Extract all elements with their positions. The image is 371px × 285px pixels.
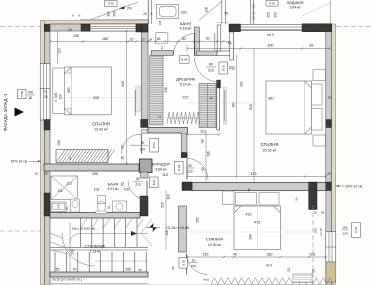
svg-text:180: 180 <box>267 253 273 257</box>
facade direction triangle <box>15 108 25 117</box>
svg-text:25, 10 - 110: 25, 10 - 110 <box>252 4 256 20</box>
svg-text:35: 35 <box>247 188 251 192</box>
wall block: V3 bottom tip <box>181 153 187 158</box>
svg-text:108: 108 <box>205 7 209 13</box>
svg-text:102: 102 <box>57 189 63 193</box>
stair bottom outline lines <box>50 283 148 285</box>
wall: hall south wall <box>197 51 218 56</box>
terrace slope marker <box>91 2 138 20</box>
svg-text:113: 113 <box>66 182 71 186</box>
label П07 box <box>266 1 278 7</box>
dim 20 6 ticks <box>143 12 152 16</box>
svg-text:200: 200 <box>268 44 274 48</box>
svg-text:205: 205 <box>125 267 131 271</box>
wall: stair south wall <box>50 272 148 277</box>
radiator bedroom1 <box>56 150 115 163</box>
bidet bathroom2 left <box>71 199 80 212</box>
closet left wardrobe hatch <box>150 56 168 126</box>
label пп 0 bedroom3 <box>266 264 272 268</box>
radiator panel bedroom1 east <box>135 86 140 116</box>
svg-text:2%: 2% <box>127 7 132 11</box>
svg-text:30: 30 <box>138 268 142 272</box>
svg-text:210: 210 <box>135 182 141 186</box>
svg-text:СПАЛНЯ: СПАЛНЯ <box>261 142 279 147</box>
svg-text:80: 80 <box>136 177 140 181</box>
wall block: stair corner <box>140 196 148 216</box>
svg-text:168: 168 <box>158 20 162 25</box>
label bedroom3 СПАЛНЯ <box>206 237 223 247</box>
window П08 in left wall <box>40 64 50 121</box>
stair lower flight treads <box>55 252 146 272</box>
svg-text:12: 12 <box>158 115 162 119</box>
svg-text:61: 61 <box>206 37 210 41</box>
bedroom1 bed <box>64 67 111 115</box>
dim 12 radiator <box>68 157 72 161</box>
svg-text:165: 165 <box>314 228 318 233</box>
label пп10 <box>52 278 82 282</box>
svg-text:250: 250 <box>267 12 271 18</box>
svg-text:250: 250 <box>113 11 117 17</box>
svg-text:4.01 м²: 4.01 м² <box>107 187 119 191</box>
svg-text:50: 50 <box>225 12 229 16</box>
svg-text:62: 62 <box>121 182 125 186</box>
dim 250 250 rot <box>267 12 278 18</box>
label bedroom1 СПАЛНЯ <box>92 122 110 132</box>
svg-text:25: 25 <box>328 95 332 99</box>
wall: top insulation strip <box>44 21 148 25</box>
dim 12 closet right <box>209 96 213 100</box>
svg-text:210: 210 <box>191 264 196 268</box>
label П08 box <box>18 90 35 101</box>
label П03 box <box>105 1 118 7</box>
svg-text:55: 55 <box>56 267 60 271</box>
wall block: V1 bottom <box>141 120 148 128</box>
svg-text:БАНЯ: БАНЯ <box>108 183 119 187</box>
svg-text:П 04: П 04 <box>354 227 358 233</box>
dim rot 110 320 <box>167 194 171 199</box>
door label 80/210 hall <box>206 63 216 73</box>
extension lines vertical <box>50 0 326 285</box>
svg-text:80: 80 <box>209 63 213 67</box>
svg-text:118: 118 <box>165 230 169 235</box>
svg-text:90: 90 <box>188 164 192 168</box>
closet hanger rail zigzag <box>167 112 200 124</box>
dim marker bath left <box>158 20 162 25</box>
svg-text:83: 83 <box>310 44 314 48</box>
svg-text:186: 186 <box>207 151 211 157</box>
svg-text:П 03: П 03 <box>108 2 115 6</box>
wall: central vertical V1 (bedroom/closet divider) <box>141 32 148 120</box>
bedroom2 bed <box>266 81 312 134</box>
label СТЪЛБИЩЕ <box>84 245 106 254</box>
hall east line <box>233 32 235 60</box>
dim 68 <box>157 37 161 41</box>
wall: bathroom2 south wall H6 <box>50 213 140 219</box>
svg-text:82: 82 <box>232 66 236 70</box>
loggia inner wall line <box>251 0 254 24</box>
svg-text:25: 25 <box>44 172 48 176</box>
label EPS left <box>11 160 41 164</box>
svg-text:100: 100 <box>58 48 62 54</box>
svg-text:92: 92 <box>201 167 205 171</box>
label bathroom БАНЯ <box>180 21 192 31</box>
wall: bathroom south wall segment <box>151 51 173 56</box>
label bedroom2 СПАЛНЯ <box>261 142 279 152</box>
dim rot 71 78 82 <box>171 266 175 270</box>
svg-text:473: 473 <box>251 172 257 176</box>
radiator panel bedroom2 west <box>223 87 226 124</box>
svg-text:П 07: П 07 <box>269 2 276 6</box>
wall V3b upper segment <box>181 130 187 133</box>
wall: main middle wall H4 <box>44 164 139 171</box>
wall block: left top corner <box>44 24 50 32</box>
svg-text:473: 473 <box>254 221 260 225</box>
dim 227 closet <box>183 96 189 100</box>
label БАНЯ2 <box>107 183 119 192</box>
dim 58 rot <box>312 269 316 273</box>
svg-text:25: 25 <box>44 95 48 99</box>
svg-text:330: 330 <box>240 81 244 87</box>
svg-text:227: 227 <box>183 96 189 100</box>
dim 165 rot window <box>314 228 324 236</box>
hall upper lines <box>217 0 229 25</box>
level mark +3.15 <box>146 223 189 232</box>
svg-text:228: 228 <box>71 249 75 255</box>
wall: corridor east wall V3 <box>181 133 187 158</box>
wall: corridor/bedroom3 wall H5 <box>192 183 326 191</box>
svg-text:+3.15=+10.85: +3.15=+10.85 <box>166 226 190 230</box>
svg-text:130: 130 <box>73 34 79 38</box>
svg-text:20: 20 <box>68 27 72 31</box>
svg-text:15: 15 <box>130 38 134 42</box>
wall: left exterior insulation (EPS) <box>40 21 44 285</box>
dim 201 bathroom <box>181 11 187 15</box>
wall block: H4/corridor junction <box>140 159 153 173</box>
door label 90/210 corridor <box>175 162 195 175</box>
frame bottom line <box>44 284 336 285</box>
svg-text:18: 18 <box>121 156 125 160</box>
dim line bedroom3 bottom <box>186 256 327 258</box>
closet door arc <box>195 58 220 83</box>
svg-text:35: 35 <box>321 211 325 215</box>
wall: right exterior insulation <box>331 24 335 285</box>
sink counter bathroom2 <box>51 202 69 212</box>
label КОРИДОР <box>152 163 170 172</box>
svg-text:В 04: В 04 <box>152 179 156 185</box>
svg-text:103: 103 <box>94 188 100 192</box>
door label 90/210 В02 <box>130 139 158 153</box>
label пп 0 small <box>203 278 209 282</box>
bedroom3 nightstand <box>223 191 235 205</box>
facade label ФАСАДА ЗАПАД -1 <box>3 93 8 131</box>
dim chain bedroom2 verticals <box>232 49 255 183</box>
svg-text:ФАСАДА ЗАПАД -1: ФАСАДА ЗАПАД -1 <box>3 93 8 131</box>
svg-text:25: 25 <box>327 172 331 176</box>
svg-text:5.22 м²: 5.22 м² <box>180 83 192 87</box>
label EPS right <box>336 184 363 188</box>
svg-text:КОРИДОР: КОРИДОР <box>152 163 170 167</box>
loggia east line <box>329 0 331 24</box>
svg-text:90: 90 <box>192 259 196 263</box>
svg-text:40: 40 <box>233 253 237 257</box>
label closet ДРЕШНИК <box>176 78 196 87</box>
svg-text:200: 200 <box>28 91 34 95</box>
wall: hall west wall <box>215 25 221 51</box>
dim 15 <box>130 38 134 42</box>
bathtub in bathroom <box>157 5 179 19</box>
wall: bathroom east wall V2 <box>194 27 199 56</box>
svg-text:250: 250 <box>274 12 278 18</box>
bedroom3 pillow left <box>236 193 257 206</box>
svg-text:В 02: В 02 <box>152 142 156 148</box>
dim 180 <box>102 37 108 41</box>
dashed line top right <box>336 26 371 28</box>
dim 103 bath2 <box>94 188 130 192</box>
dim 112 below closet <box>186 130 220 136</box>
svg-text:60: 60 <box>29 96 33 100</box>
svg-text:63: 63 <box>107 206 111 210</box>
svg-text:88: 88 <box>201 139 205 143</box>
dim 200 loggia <box>268 44 274 48</box>
dim 35 rot in H5 <box>247 188 251 192</box>
wardrobe zigzag bottom <box>211 278 334 285</box>
wall block: right mid2 <box>325 182 331 191</box>
svg-text:12: 12 <box>68 157 72 161</box>
dim 115 corridor <box>162 173 168 177</box>
dim 450 rot <box>67 87 71 93</box>
stair divider <box>50 248 148 251</box>
bedroom2 pillow bottom <box>312 109 323 131</box>
svg-text:150: 150 <box>203 253 209 257</box>
closet right wardrobe hatch <box>199 84 216 128</box>
svg-text:10,: 10, <box>34 172 38 176</box>
dashed line left lower <box>0 230 41 232</box>
dim 62 rot bath2 door <box>121 182 125 186</box>
wall: top exterior wall body <box>50 24 136 31</box>
wall block: top mid <box>81 24 90 31</box>
door В04 bathroom2 arc <box>128 181 147 200</box>
svg-text:5.66 м²: 5.66 м² <box>155 167 167 171</box>
wall block: H5 left <box>182 182 192 191</box>
wall block: V1 top <box>141 24 148 32</box>
svg-text:200: 200 <box>59 94 63 100</box>
bedroom2 pillow top <box>312 84 323 105</box>
svg-text:13.42 м²: 13.42 м² <box>94 128 108 132</box>
door label В03 box <box>219 62 228 74</box>
svg-text:180: 180 <box>102 37 108 41</box>
wall: right lower insulated block <box>326 262 336 282</box>
svg-text:90: 90 <box>141 141 145 145</box>
svg-text:23: 23 <box>287 268 291 272</box>
bedroom2 nightstand top <box>313 70 326 81</box>
stair winder arc <box>51 233 96 266</box>
svg-text:24: 24 <box>160 46 164 50</box>
svg-text:150: 150 <box>57 140 61 146</box>
svg-text:70: 70 <box>73 267 77 271</box>
dashed axis bedroom3 <box>312 205 314 285</box>
svg-text:115: 115 <box>162 173 168 177</box>
svg-text:103: 103 <box>309 253 315 257</box>
wall: bedroom3 west wall V4 <box>178 206 186 252</box>
svg-text:210: 210 <box>140 147 146 151</box>
dim row under stairs <box>56 267 142 272</box>
stair label 19ct <box>72 226 96 230</box>
svg-text:12: 12 <box>209 96 213 100</box>
dim 228 rot stairs <box>71 249 75 255</box>
dim 25 right wall <box>328 95 332 99</box>
dim rot 205 <box>196 217 200 223</box>
svg-text:305: 305 <box>93 96 99 100</box>
svg-text:165: 165 <box>342 226 347 230</box>
svg-text:пл 0: пл 0 <box>267 33 274 37</box>
svg-text:238: 238 <box>164 87 168 93</box>
svg-text:54: 54 <box>295 197 299 201</box>
dim 130 <box>73 34 79 38</box>
dim 12 closet left <box>158 115 162 119</box>
dim 20 in wall <box>68 27 72 31</box>
bathroom sink <box>155 32 168 49</box>
dim 25 10-110 rot <box>252 4 256 20</box>
bedroom2 nightstand bottom <box>313 135 326 146</box>
dim 61 <box>206 37 210 41</box>
dim 15 25 left <box>34 172 48 176</box>
svg-text:пл 10: пл 10 <box>319 228 323 236</box>
shower cabin bathroom2 <box>51 176 78 200</box>
dim 25 24 <box>141 38 152 42</box>
dim 190 250 rot <box>107 11 117 17</box>
label loggia ЛОДЖИЯ <box>287 1 304 10</box>
bedroom3 bed <box>234 206 281 250</box>
svg-text:4.18 м²: 4.18 м² <box>180 27 192 31</box>
svg-text:112: 112 <box>200 130 206 134</box>
svg-text:205: 205 <box>196 217 200 223</box>
dim 25 marker mid <box>44 95 48 99</box>
door В02 bedroom1 arc <box>122 130 148 155</box>
svg-text:308: 308 <box>249 234 253 240</box>
wall: hall/loggia wall <box>230 32 234 60</box>
loggia slope line <box>302 3 330 16</box>
wall: hall thin south <box>217 51 233 56</box>
svg-text:516: 516 <box>249 104 253 110</box>
dim 100 rot <box>58 31 62 64</box>
appliance box bottom <box>293 274 312 283</box>
stair walk line <box>70 222 148 272</box>
svg-text:65: 65 <box>157 37 161 41</box>
svg-text:82: 82 <box>171 266 175 270</box>
window П04 in right wall <box>326 232 336 263</box>
center line bedroom2 <box>188 102 256 104</box>
bedroom3 pillow right <box>259 193 279 206</box>
svg-text:EPS 10 см: EPS 10 см <box>11 160 28 164</box>
bedroom1 wardrobe <box>53 68 65 114</box>
dim 473 bedroom2 <box>186 172 331 178</box>
svg-text:14.30 м²: 14.30 м² <box>208 243 222 247</box>
svg-text:БАНЯ: БАНЯ <box>180 21 191 26</box>
stair upper flight treads <box>81 219 138 248</box>
wall: bathroom west thin wall <box>149 0 152 24</box>
svg-text:25: 25 <box>313 211 317 215</box>
terrace edge line <box>80 19 148 21</box>
dim chain corridor verticals <box>201 131 211 182</box>
dim line top chain <box>49 40 230 42</box>
svg-text:ДРЕШНИК: ДРЕШНИК <box>176 78 196 82</box>
svg-text:н. 190: н. 190 <box>54 92 58 101</box>
svg-text:340: 340 <box>121 81 125 87</box>
dim 20 6 left <box>72 14 80 18</box>
wall block: H5 pillar <box>309 182 317 210</box>
svg-text:361: 361 <box>268 97 274 101</box>
door label 80/210 bath2 <box>134 177 159 188</box>
door В02 corridor arc <box>187 159 208 180</box>
dim line loggia <box>186 47 331 49</box>
svg-text:СПАЛНЯ: СПАЛНЯ <box>206 237 223 242</box>
svg-text:102: 102 <box>124 188 130 192</box>
svg-text:пп 0: пп 0 <box>203 278 209 282</box>
dim 23 rot <box>287 268 291 272</box>
svg-text:210: 210 <box>208 69 214 73</box>
svg-text:110: 110 <box>167 194 171 199</box>
svg-text:EPS 10 см: EPS 10 см <box>346 184 363 188</box>
svg-text:413: 413 <box>246 213 252 217</box>
svg-text:СПАЛНЯ: СПАЛНЯ <box>92 122 110 127</box>
shower diagonal in bathroom <box>199 2 228 21</box>
svg-text:ЛОДЖИЯ: ЛОДЖИЯ <box>287 1 304 5</box>
wall block: loggia sill left <box>229 24 241 32</box>
faint lines bedroom3 <box>190 206 312 250</box>
door В04 bathroom arc <box>173 34 194 56</box>
svg-text:190: 190 <box>107 11 111 17</box>
svg-text:210: 210 <box>187 169 193 173</box>
svg-text:В 03: В 03 <box>221 65 225 72</box>
svg-text:520: 520 <box>161 202 165 208</box>
svg-text:450: 450 <box>67 87 71 93</box>
svg-text:20.32 м²: 20.32 м² <box>263 148 277 152</box>
svg-text:305: 305 <box>92 172 98 176</box>
svg-text:24: 24 <box>149 38 153 42</box>
toilet bathroom2 <box>96 196 107 214</box>
svg-text:60: 60 <box>65 207 69 211</box>
dim 150 rot stair side <box>57 140 61 146</box>
svg-text:П 08: П 08 <box>20 91 24 97</box>
dim 150 40 180 103 <box>203 253 315 257</box>
stair landing X lines <box>141 219 152 246</box>
wall block: left lower <box>44 193 50 216</box>
dim rot 118 <box>165 230 169 235</box>
wall: closet east wall <box>217 81 220 130</box>
dim 82 <box>182 37 186 41</box>
wall block: right top (loggia junction) <box>302 24 332 32</box>
washing machine bathroom2 <box>107 201 127 212</box>
dashed line top left <box>0 26 41 28</box>
wall: closet south wall H4b <box>148 128 188 134</box>
wall: corridor west wall below H4 <box>141 172 148 178</box>
svg-text:3.04 м²: 3.04 м² <box>289 6 301 10</box>
dim 54 rot bed3 <box>295 197 299 201</box>
dim 25 35 labels <box>313 211 324 215</box>
door В05 bedroom3 arc <box>187 254 208 275</box>
svg-text:92: 92 <box>121 145 125 149</box>
svg-text:240: 240 <box>342 232 347 236</box>
svg-text:В 02: В 02 <box>177 164 181 170</box>
dim 340 rot bedroom1 <box>121 30 128 165</box>
wall: right exterior wall body <box>326 24 332 285</box>
dim 74 hall <box>228 42 232 46</box>
wall: left exterior wall body <box>44 24 50 285</box>
faint line bedroom1 <box>51 97 142 99</box>
wall block: right mid1 <box>326 120 332 128</box>
svg-text:В 05: В 05 <box>181 259 185 265</box>
dim 62 rot <box>229 66 233 70</box>
